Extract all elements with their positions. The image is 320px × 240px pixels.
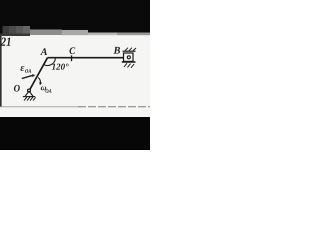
epsilon arc arrow (22, 76, 32, 79)
bottom frame line (0, 106, 78, 108)
wire: link A-B (48, 57, 128, 59)
angle value 120 deg (52, 64, 69, 70)
label omega OA subscript (45, 89, 51, 93)
node O label (14, 85, 20, 92)
label omega OA (41, 86, 46, 90)
rod OA (29, 58, 48, 91)
left frame line (0, 36, 2, 107)
top scan bar (0, 0, 150, 30)
label epsilon OA (20, 66, 24, 71)
slider guide bottom line (122, 61, 136, 63)
omega arc arrow (38, 78, 40, 84)
slider pin circle (127, 56, 130, 59)
pivot O hatching (24, 97, 36, 101)
pivot O triangle support (25, 91, 33, 97)
variant number 21 (1, 38, 11, 46)
bottom scan bar (0, 117, 150, 150)
node A label (40, 48, 47, 55)
node C tick (71, 55, 73, 61)
slider block B (124, 53, 134, 61)
label epsilon OA subscript (25, 69, 31, 73)
top bar gray steps (2, 26, 9, 34)
paper background (0, 0, 150, 150)
guide top hatching (125, 48, 136, 51)
guide bottom hatching (124, 63, 134, 68)
node B label (114, 47, 121, 54)
angle arc at A (44, 58, 56, 66)
node C label (70, 47, 76, 54)
pivot O pin (28, 89, 31, 92)
slider guide top line at B (123, 50, 136, 52)
